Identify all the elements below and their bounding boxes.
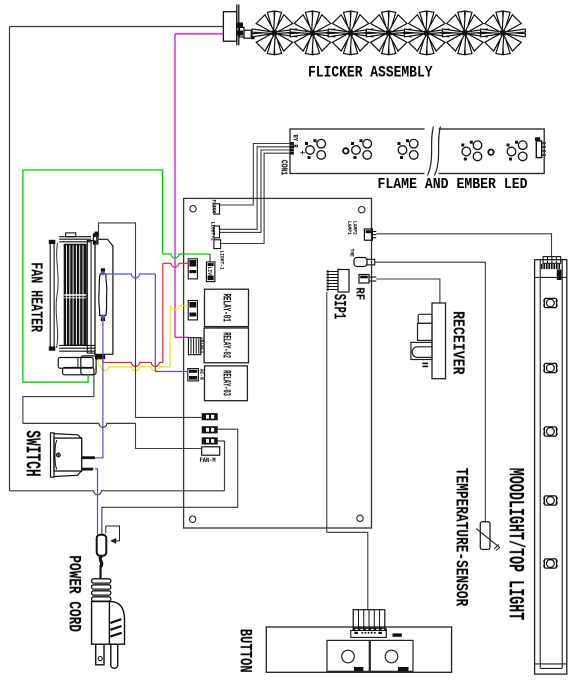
LED cluster D5 [507, 147, 516, 156]
svg-text:RELAY-01: RELAY-01 [220, 294, 232, 322]
connector AC-H2 [202, 426, 218, 433]
connector CN2 LIVE [206, 262, 215, 282]
flicker star wheel 1 [252, 11, 297, 55]
LED cluster D1 [306, 146, 315, 155]
receiver crystal [411, 342, 432, 359]
wire red heater live [102, 358, 105, 362]
relay RELAY-03 [205, 366, 248, 401]
fan heater motor [58, 358, 93, 369]
flicker motor M1 [223, 12, 236, 42]
flicker star wheel 4 [366, 11, 411, 55]
fan heater terminal lug [93, 233, 99, 244]
svg-text:RELAY-02: RELAY-02 [220, 332, 233, 358]
connector J3 light1 [214, 240, 221, 249]
svg-text:LAMP2: LAMP2 [351, 221, 357, 235]
button board outline [266, 627, 451, 672]
PCB mounting hole bottom-right [357, 515, 363, 521]
svg-text:SWITCH: SWITCH [19, 430, 43, 476]
main PCB board outline [184, 198, 372, 528]
receiver IC [418, 314, 432, 323]
fan heater blower assembly [50, 242, 54, 349]
button switch SW2 [370, 640, 413, 671]
flicker star wheel 2 [290, 11, 335, 55]
svg-text:FAN-M: FAN-M [200, 456, 217, 463]
wire blue thermal to switch [95, 317, 103, 458]
strain relief arrow symbol [106, 526, 120, 541]
svg-text:FAN HEATER: FAN HEATER [26, 262, 44, 332]
wire black heater neutral [96, 236, 98, 245]
moodlight LED L3 [544, 427, 556, 436]
ember LED D2a [343, 148, 348, 153]
wire blue thermal to PCB [103, 274, 155, 278]
wires CON1 bus PCB to LED strip [220, 144, 291, 206]
connector AC-H3 [202, 437, 218, 444]
wire black left loop bottom to CON-C [10, 491, 225, 495]
svg-text:TEMPERATURE-SENSOR: TEMPERATURE-SENSOR [451, 468, 471, 607]
rocker switch S1 [51, 433, 55, 477]
flicker shaft [255, 31, 520, 33]
moodlight LED L5 [544, 559, 556, 568]
svg-text:MOODLIGHT/TOP LIGHT: MOODLIGHT/TOP LIGHT [502, 468, 528, 620]
wire black neutral to power cord [102, 429, 238, 534]
wire RF to receiver [376, 279, 440, 303]
connector AC-H1 [202, 413, 218, 420]
LED board end connector CON2 [535, 137, 540, 140]
wire black from mains loop to flicker motor [10, 26, 224, 28]
button switch SW1 [327, 640, 369, 671]
svg-text:FLICKER ASSEMBLY: FLICKER ASSEMBLY [308, 64, 433, 81]
LED cluster D2 [352, 146, 361, 155]
fan heater thermal cutout [99, 274, 107, 316]
svg-text:BY B: BY B [291, 135, 299, 149]
LED strip board outline with break [290, 129, 544, 174]
moodlight bar outline [535, 260, 567, 674]
svg-text:SIP1: SIP1 [329, 294, 348, 320]
connector THE thermistor [354, 258, 367, 267]
thermistor RT1 [480, 522, 490, 550]
svg-text:AC-N: AC-N [198, 369, 204, 380]
power cord plug P1 [97, 535, 107, 556]
moodlight LED L1 [544, 298, 556, 307]
PCB mounting hole top-left [190, 206, 196, 212]
flicker star wheel 6 [442, 11, 487, 55]
moodlight LED L4 [544, 496, 556, 505]
moodlight top connector [543, 257, 561, 264]
svg-text:LIVE: LIVE [206, 267, 212, 278]
wire LAMP to moodlight [376, 234, 551, 257]
button pin header [353, 610, 385, 629]
relay RELAY-01 [205, 289, 249, 326]
svg-text:THE: THE [348, 249, 354, 257]
earth wire green loop [23, 170, 163, 382]
flicker star wheel 3 [328, 11, 373, 55]
svg-text:BUTTON: BUTTON [235, 629, 256, 673]
connector J1 flicker [214, 204, 220, 214]
wire black switch feed [23, 375, 94, 424]
wire magenta flicker motor to PCB [175, 33, 223, 35]
flicker star wheel 7 [481, 11, 526, 55]
svg-text:LIGHT-1: LIGHT-1 [218, 251, 224, 270]
LED cluster D3 [398, 146, 407, 155]
connector CN3 heater yellow [188, 301, 197, 320]
button connector strip [351, 631, 387, 638]
connector RF [359, 275, 369, 284]
svg-text:RF: RF [352, 287, 366, 300]
relay RELAY-02 [204, 328, 248, 363]
svg-text:POWER CORD: POWER CORD [64, 555, 84, 632]
flicker star wheel 5 [404, 11, 449, 55]
connector SIP1 [338, 270, 349, 293]
connector J2 light2 [214, 226, 220, 238]
receiver board [432, 303, 446, 379]
svg-text:RECEIVER: RECEIVER [448, 311, 466, 374]
wire SIP1 bus to button board [327, 292, 368, 610]
LED cluster D4 [462, 147, 471, 156]
wire black left loop vertical [9, 27, 11, 491]
connector CN1 live-in red [188, 259, 197, 279]
svg-text:CON1: CON1 [278, 160, 289, 175]
wire THE to temperature sensor [375, 262, 486, 522]
connector FAN-M [202, 447, 220, 455]
ember LED D4a [488, 150, 493, 155]
svg-text:FLAME AND EMBER LED: FLAME AND EMBER LED [378, 176, 528, 193]
PCB mounting hole top-right [359, 207, 365, 213]
svg-text:+: + [297, 151, 306, 156]
wire yellow heater speed [99, 359, 101, 367]
triac T1 [188, 338, 200, 355]
connector CN5 neutral blue [188, 369, 199, 381]
LED board input pins CON1 pads [291, 142, 294, 145]
receiver pins [422, 363, 428, 365]
svg-text:FLICK: FLICK [210, 200, 216, 214]
connector LAMP [364, 229, 372, 240]
moodlight LED L2 [544, 363, 556, 372]
PCB mounting hole bottom-left [189, 516, 195, 522]
wire blue switch to power cord [95, 469, 98, 534]
svg-text:RELAY-03: RELAY-03 [220, 370, 233, 396]
